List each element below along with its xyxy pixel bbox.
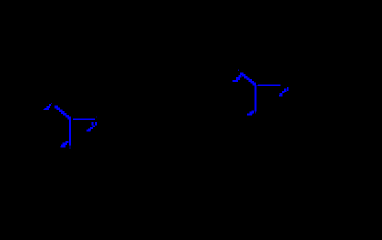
right fragment: horizontal bond to the right [257, 85, 280, 87]
right fragment: fishhook half-arrowhead of vertical bond [247, 110, 254, 115]
left fragment: vertical bond downward [69, 118, 71, 149]
left fragment: fishhook half-arrowhead of vertical bond [60, 141, 68, 147]
right fragment: small fishhook arrow past end of horizontal bond [279, 87, 289, 97]
left fragment: fishhook half-arrowhead of upper-left bond [44, 103, 53, 110]
left fragment: small fishhook arrow under horizontal bond [87, 117, 98, 132]
left fragment: horizontal bond to the right [73, 118, 95, 120]
left fragment: bond shaft to upper-left atom [54, 106, 71, 120]
right fragment: vertical bond downward [255, 85, 257, 114]
right fragment: fishhook half-arrowhead of upper-left bond [233, 70, 242, 82]
right fragment: bond shaft to upper-left atom [240, 72, 256, 85]
